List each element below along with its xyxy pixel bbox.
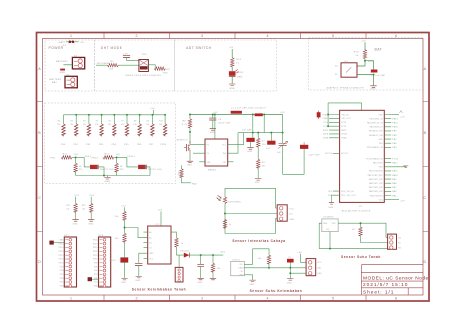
svg-text:GND: GND <box>287 282 293 284</box>
node VBUS <box>364 60 366 62</box>
wire probe to gnd <box>124 262 126 278</box>
connector X5 <box>306 259 316 276</box>
svg-text:DS18B20: DS18B20 <box>324 216 335 218</box>
gnd flag at SV1 <box>49 241 65 245</box>
wire node to LED4 <box>127 157 138 167</box>
node on rail <box>103 175 105 177</box>
svg-text:PB11: PB11 <box>392 123 398 125</box>
svg-text:GND: GND <box>187 165 193 167</box>
resistor R12 <box>74 163 77 172</box>
svg-text:R18: R18 <box>120 169 124 171</box>
resistor R22 <box>74 203 77 212</box>
svg-text:VDD: VDD <box>332 223 337 225</box>
wire to connector S1 <box>178 255 180 267</box>
svg-text:R22: R22 <box>66 205 70 207</box>
svg-text:GND: GND <box>317 273 322 275</box>
svg-text:PB10: PB10 <box>161 144 168 146</box>
wire gnd right middle <box>391 165 406 168</box>
resistor R25 <box>123 233 126 242</box>
ground right middle <box>403 166 408 167</box>
svg-text:+5V: +5V <box>229 47 234 49</box>
node on data wire <box>289 267 291 269</box>
svg-text:GND: GND <box>197 282 203 284</box>
wire +5V stub <box>152 110 154 115</box>
wire node to cap <box>365 61 374 70</box>
svg-text:PD6: PD6 <box>60 278 64 280</box>
resistor R10 pullup <box>159 115 167 137</box>
svg-text:PA11: PA11 <box>392 170 398 173</box>
title block outline <box>361 265 423 295</box>
svg-text:NRST: NRST <box>323 130 329 132</box>
svg-text:BAT: BAT <box>375 48 383 52</box>
svg-text:2: 2 <box>136 34 138 38</box>
svg-text:PB10: PB10 <box>93 259 98 261</box>
svg-text:PD7: PD7 <box>60 274 64 276</box>
wire C6 to gnd <box>250 142 252 147</box>
svg-text:Sensor Kelembaban Tanah: Sensor Kelembaban Tanah <box>132 288 186 292</box>
svg-text:DATA: DATA <box>239 267 245 270</box>
relay CN1 <box>139 60 149 72</box>
svg-text:PB8: PB8 <box>392 135 397 137</box>
capacitor C9 polarized <box>287 259 294 263</box>
SV2 pin labels <box>93 240 98 288</box>
ground <box>249 280 255 282</box>
svg-text:PC15: PC15 <box>341 126 346 128</box>
SECTION DASHED BOXES <box>45 38 423 184</box>
column numbers bottom <box>70 297 397 301</box>
node dots on rail <box>189 114 265 116</box>
svg-text:PB2: PB2 <box>86 144 91 146</box>
svg-text:GND: GND <box>73 223 79 225</box>
dht mode section box <box>95 40 175 91</box>
svg-text:PA15/SWD_JS: PA15/SWD_JS <box>369 117 383 120</box>
value label R12 <box>79 166 83 171</box>
svg-text:GND: GND <box>229 88 235 90</box>
resistor R30 <box>359 227 362 236</box>
svg-text:R12: R12 <box>79 169 83 171</box>
svg-text:PA10/TIM1_BCK: PA10/TIM1_BCK <box>368 174 384 177</box>
svg-text:3: 3 <box>201 34 203 38</box>
svg-text:D1: D1 <box>149 248 152 250</box>
svg-text:HQ: HQ <box>116 154 120 156</box>
connector X3 <box>277 205 287 221</box>
svg-text:6: 6 <box>395 297 397 301</box>
svg-text:PC13/GUARD2_IN: PC13/GUARD2_IN <box>366 157 384 160</box>
node dots on rail <box>75 114 166 116</box>
row letters left <box>38 67 41 264</box>
resistor R9 pullup <box>146 115 154 137</box>
svg-text:PB5: PB5 <box>392 147 397 149</box>
node dots on out wire <box>200 254 214 256</box>
svg-text:GND: GND <box>289 219 295 221</box>
svg-text:10k: 10k <box>70 124 73 126</box>
svg-text:VCC: VCC <box>149 258 154 260</box>
resistor R19 <box>180 169 183 178</box>
svg-text:+5V: +5V <box>150 108 155 110</box>
resistor R1 <box>107 63 118 66</box>
svg-text:1uF: 1uF <box>266 148 271 150</box>
svg-text:PB13: PB13 <box>93 247 98 249</box>
diode D1 <box>184 253 190 258</box>
mcu right net labels <box>392 118 398 197</box>
svg-text:PD12: PD12 <box>59 255 64 257</box>
pin names inside 555 <box>206 145 227 164</box>
svg-text:1M: 1M <box>120 166 123 168</box>
svg-text:BOOT0: BOOT0 <box>341 153 348 155</box>
capacitor C12 <box>135 263 143 265</box>
svg-text:VSSA: VSSA <box>341 137 347 140</box>
wire from CN1 <box>148 65 155 69</box>
svg-text:R1: R1 <box>111 61 115 63</box>
mcu U1 <box>340 110 385 202</box>
resistor R4 pullup <box>83 115 91 137</box>
svg-text:LED2: LED2 <box>237 72 244 74</box>
svg-text:3: 3 <box>201 297 203 301</box>
column numbers top <box>70 34 397 38</box>
wire +5V rail center <box>189 114 282 116</box>
wire diode out <box>189 254 223 256</box>
resistor R13 <box>363 50 366 59</box>
resistor R27 <box>211 263 214 272</box>
svg-text:PB14: PB14 <box>93 243 98 245</box>
wire cap to gnd <box>373 75 375 86</box>
wire loop left <box>224 204 226 234</box>
ground <box>229 84 235 86</box>
IC1 pin names inside <box>149 231 154 260</box>
svg-text:VCC: VCC <box>94 282 99 284</box>
svg-text:PD13: PD13 <box>59 251 64 253</box>
connector SV1 <box>64 237 76 287</box>
node dots <box>327 114 329 128</box>
wire rail to row right <box>282 115 284 175</box>
svg-text:PA9: PA9 <box>392 178 397 181</box>
resistor R6 pullup <box>108 115 116 137</box>
svg-text:10k: 10k <box>262 144 266 146</box>
frame inner border <box>43 39 424 296</box>
wire middle to connector <box>225 213 277 215</box>
svg-text:DHTDATA: DHTDATA <box>97 62 109 65</box>
svg-text:10k: 10k <box>95 124 98 126</box>
svg-text:10k: 10k <box>159 124 162 126</box>
wire R27 to gnd <box>212 272 214 278</box>
svg-text:2: 2 <box>136 297 138 301</box>
svg-text:GND: GND <box>239 275 244 277</box>
wire vdd pin down <box>329 232 331 249</box>
sensor probe MOIS1 <box>121 258 128 263</box>
svg-text:DHT MODE: DHT MODE <box>101 46 123 50</box>
svg-text:ADT SWITCH: ADT SWITCH <box>186 46 212 50</box>
svg-text:BATTERY: BATTERY <box>56 60 68 63</box>
svg-text:PA14/SWCLK_JS: PA14/SWCLK_JS <box>367 122 383 125</box>
wire R10 to LED <box>231 67 233 71</box>
resistor R2 pullup <box>57 115 65 137</box>
svg-text:R9: R9 <box>147 121 150 123</box>
resistor R26 <box>175 238 178 247</box>
IC1 out pin wire <box>171 232 177 238</box>
svg-text:10k: 10k <box>133 124 136 126</box>
svg-text:ADAFRUIT_PERMA_DS18B20/TH: ADAFRUIT_PERMA_DS18B20/TH <box>327 87 365 90</box>
wire loop top <box>225 188 277 208</box>
svg-text:1M: 1M <box>79 166 82 168</box>
svg-text:1uF CAP: 1uF CAP <box>242 129 252 132</box>
svg-text:100nF CAP: 100nF CAP <box>218 121 231 124</box>
svg-text:C: C <box>38 196 41 200</box>
svg-text:LM4148: LM4148 <box>180 251 189 253</box>
wire PD1 to R22 <box>75 197 77 204</box>
ground <box>198 278 204 280</box>
node <box>289 272 291 274</box>
ground <box>121 278 127 280</box>
svg-text:D: D <box>423 260 426 264</box>
wire R30 to pin2 <box>361 236 388 242</box>
svg-text:CN1: CN1 <box>142 54 148 56</box>
ground <box>104 178 110 180</box>
wire R25 to probe <box>124 242 126 257</box>
svg-text:GND: GND <box>121 282 127 284</box>
wire R26 to diode <box>177 247 184 255</box>
ground <box>247 148 253 150</box>
svg-text:+5V: +5V <box>400 200 405 202</box>
wire node to LED3 <box>84 157 90 167</box>
wire C5 to gnd <box>212 120 214 128</box>
svg-text:MOSFET_N: MOSFET_N <box>177 140 188 142</box>
svg-text:VDDA: VDDA <box>323 133 329 136</box>
ground <box>255 179 261 181</box>
wire node down to R12 <box>75 157 77 163</box>
designator R23 <box>82 205 86 210</box>
svg-text:GRN: GRN <box>237 76 243 78</box>
led LED2 <box>229 69 238 76</box>
svg-text:GND: GND <box>206 162 211 164</box>
svg-text:PD1: PD1 <box>75 195 80 197</box>
svg-text:1: 1 <box>70 34 72 38</box>
wire LED to gnd <box>231 75 233 83</box>
svg-text:PB1/ADC1_IN9: PB1/ADC1_IN9 <box>369 130 383 133</box>
fuse F1 <box>68 41 74 44</box>
IC1 left pin wires <box>144 232 148 258</box>
capacitor C10 <box>123 55 130 57</box>
svg-text:Sensor Suhu Kelembaban: Sensor Suhu Kelembaban <box>250 289 303 293</box>
wire into R19 <box>181 165 183 169</box>
module G1 <box>341 63 357 77</box>
svg-text:PA8/TIM1_CH1: PA8/TIM1_CH1 <box>369 182 383 185</box>
svg-text:PB0/ADC1_IN8: PB0/ADC1_IN8 <box>369 134 383 137</box>
svg-text:DO: DO <box>289 214 293 216</box>
svg-text:VCC: VCC <box>166 69 171 71</box>
svg-text:10k: 10k <box>121 124 124 126</box>
svg-text:PD10: PD10 <box>59 263 64 265</box>
wire into fuse <box>66 41 79 43</box>
wire vcc top <box>328 103 361 110</box>
svg-text:PB5: PB5 <box>124 144 129 146</box>
wire R7b to R8b <box>257 147 259 159</box>
svg-text:PC13: PC13 <box>392 158 398 160</box>
svg-text:4k7: 4k7 <box>352 229 357 231</box>
svg-text:PD11: PD11 <box>59 259 64 261</box>
svg-text:HQ: HQ <box>74 154 78 156</box>
node <box>268 267 270 269</box>
ground below mcu left <box>329 203 334 204</box>
resistor R10 <box>231 58 234 67</box>
sensor DS18B20 <box>322 219 338 232</box>
svg-text:GND: GND <box>163 72 169 74</box>
wire R31 to data wire <box>268 264 270 268</box>
row letters right <box>423 67 426 264</box>
svg-text:THR: THR <box>222 153 227 155</box>
svg-text:22pF CAP: 22pF CAP <box>308 154 320 157</box>
node on gate wire <box>189 131 191 133</box>
wire left bus <box>327 103 329 126</box>
node at cap <box>373 74 375 76</box>
svg-text:VCC: VCC <box>289 208 294 210</box>
wire R24 to node <box>124 220 126 233</box>
svg-text:VSS: VSS <box>379 143 384 145</box>
resistor R3 pullup <box>70 115 78 137</box>
svg-text:PB15: PB15 <box>93 240 98 242</box>
svg-text:ATM_AE_REF_S_DEVICE: ATM_AE_REF_S_DEVICE <box>342 209 371 212</box>
svg-text:PD4: PD4 <box>60 286 64 288</box>
connector S1 <box>175 267 183 282</box>
svg-text:PD1_OSC_OUT: PD1_OSC_OUT <box>341 195 356 197</box>
wire Q2 source to gnd <box>189 154 191 161</box>
trimmer C4 <box>278 141 288 148</box>
svg-text:NE555: NE555 <box>208 169 217 171</box>
node <box>224 213 226 215</box>
svg-text:PA6: PA6 <box>392 190 397 193</box>
svg-text:GND: GND <box>371 89 377 91</box>
net flag +BATT red <box>60 69 65 71</box>
svg-text:+5V: +5V <box>297 252 302 254</box>
svg-text:GND: GND <box>135 280 141 282</box>
wire LED3 down <box>95 167 104 176</box>
resistor R2 <box>154 67 165 70</box>
node A <box>75 156 77 158</box>
svg-text:R2: R2 <box>58 121 61 123</box>
wire R27 stub <box>212 255 214 263</box>
resistor R7 pullup <box>121 115 129 137</box>
svg-text:NRST: NRST <box>341 130 347 132</box>
svg-text:10k: 10k <box>115 216 119 218</box>
svg-text:MODEL: uC Sensor Node: MODEL: uC Sensor Node <box>363 275 429 281</box>
svg-text:Sheet: 1/1: Sheet: 1/1 <box>363 289 394 295</box>
svg-text:LIGHTSENS: LIGHTSENS <box>227 201 241 203</box>
svg-text:1: 1 <box>70 297 72 301</box>
svg-text:5: 5 <box>332 297 334 301</box>
wire bottom loop <box>283 149 305 174</box>
wire into R1 <box>96 64 139 66</box>
wire LED4 down <box>144 167 151 176</box>
wire rail to R6b <box>189 115 191 119</box>
net labels row PB0..PB10 <box>61 144 167 146</box>
capacitor C6 polarized <box>246 138 254 142</box>
node dots on row <box>252 132 284 134</box>
svg-text:+5V: +5V <box>400 117 405 119</box>
svg-text:IN-: IN- <box>335 74 338 76</box>
svg-text:VCC: VCC <box>317 262 322 264</box>
svg-text:10k: 10k <box>258 258 262 260</box>
wire gnd stub <box>107 176 109 178</box>
node B <box>116 156 118 158</box>
value label R18 <box>120 166 124 171</box>
wire loop bottom <box>225 219 277 234</box>
svg-text:PB0: PB0 <box>94 278 98 280</box>
svg-text:PA9/TIM1_CH2: PA9/TIM1_CH2 <box>369 178 383 181</box>
svg-text:GND: GND <box>378 139 383 141</box>
svg-text:PB1: PB1 <box>94 274 98 276</box>
svg-text:R6: R6 <box>183 120 187 122</box>
svg-text:PA11/TIM1CH4: PA11/TIM1CH4 <box>369 170 383 173</box>
mcu pin names inside left <box>341 114 356 197</box>
column tick marks bottom <box>104 295 366 301</box>
svg-text:IN+: IN+ <box>335 66 338 68</box>
ground <box>88 220 94 222</box>
resistor R7b <box>257 138 260 147</box>
svg-text:+5V: +5V <box>213 112 218 114</box>
crystal Q1 <box>317 111 321 119</box>
svg-text:PB0: PB0 <box>61 144 66 146</box>
capacitor C3 polarized <box>371 70 378 73</box>
svg-text:R3: R3 <box>70 121 73 123</box>
mcu pin names inside right <box>366 114 384 201</box>
svg-text:A1: A1 <box>149 237 151 240</box>
resistor array section box <box>45 103 176 184</box>
svg-text:GND: GND <box>249 284 255 286</box>
svg-text:A0: A0 <box>149 231 151 234</box>
svg-text:PD15: PD15 <box>59 243 64 245</box>
svg-text:PB1: PB1 <box>74 144 79 146</box>
wire bottom rail <box>319 248 387 250</box>
capacitor C13 <box>197 264 204 266</box>
svg-text:10k: 10k <box>57 124 60 126</box>
DHT11 pin names <box>239 264 245 277</box>
svg-text:PB9: PB9 <box>94 263 98 265</box>
node <box>124 227 126 229</box>
svg-text:R7: R7 <box>121 121 124 123</box>
svg-text:WIDER CMOS SPST 6OHM 03S: WIDER CMOS SPST 6OHM 03S <box>126 75 162 77</box>
resistor R24 <box>123 211 126 220</box>
sensor DHT11 <box>231 261 245 275</box>
svg-text:+5V1: +5V1 <box>220 251 226 253</box>
wire C13 to gnd <box>200 267 202 278</box>
mcu left pin wires <box>329 115 340 196</box>
wire 555 right pins <box>228 145 234 162</box>
svg-text:10k: 10k <box>108 124 111 126</box>
node on rail <box>329 248 331 250</box>
wire node to R30 <box>360 223 362 227</box>
wire R8b to gnd <box>257 168 259 178</box>
svg-text:VDDA: VDDA <box>341 133 347 136</box>
led LED4 <box>138 165 146 170</box>
svg-text:GND: GND <box>210 132 216 134</box>
wire R11 to node <box>72 156 84 158</box>
wire row net <box>238 132 283 134</box>
adt switch section box <box>175 40 277 91</box>
op-amp IC2 555 <box>205 139 228 166</box>
svg-text:10k: 10k <box>115 238 119 240</box>
resistor R8 pullup <box>133 115 141 137</box>
svg-text:10k: 10k <box>82 208 85 210</box>
resistor R11 <box>61 156 72 159</box>
wire PD1 gnd stub <box>332 195 334 202</box>
wire +5V to R13 <box>364 42 366 50</box>
wire G1 out to cap branch <box>357 74 374 76</box>
svg-text:R8: R8 <box>134 121 137 123</box>
svg-text:+5V: +5V <box>158 210 163 212</box>
svg-text:1nF: 1nF <box>277 152 282 154</box>
wire +5V rail <box>64 114 166 116</box>
DS18B20 pin names <box>323 223 336 231</box>
connector X1 <box>65 76 77 88</box>
